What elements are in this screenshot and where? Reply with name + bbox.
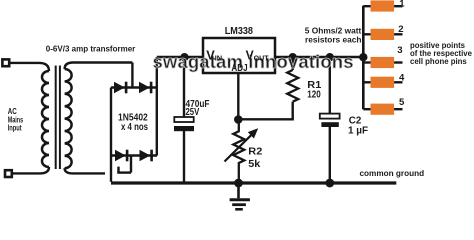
potentiometer R2 arrowhead (248, 128, 258, 138)
wire row5 right stub (394, 108, 402, 110)
capacitor C1 plates (174, 117, 193, 122)
capacitor C1 bottom lead (183, 131, 185, 183)
wire bridge right edge (156, 57, 158, 156)
wire row5 left stub (363, 108, 370, 110)
svg-text:cell phone pins: cell phone pins (410, 57, 467, 66)
resistor Ro5 (371, 104, 395, 115)
node C1 top (180, 53, 188, 61)
wire row1 right stub (394, 5, 402, 7)
wire primary top (11, 63, 50, 71)
resistor Ro3 (371, 57, 395, 68)
transformer T1 primary winding (42, 71, 49, 167)
transformer T1 core (56, 66, 60, 170)
regulator U1 LM338 (203, 38, 275, 73)
wire row4 left stub (363, 81, 370, 83)
wire secondary bottom (65, 168, 105, 173)
wire primary bottom (13, 167, 49, 173)
potentiometer R2 arrow line (225, 134, 253, 162)
svg-text:3: 3 (397, 45, 402, 56)
terminal square J1 (2, 59, 9, 66)
wire ADJ lead (237, 73, 239, 119)
wire bottom rail (common ground) (111, 181, 396, 184)
wire top rail bridge to VIN (157, 56, 203, 58)
node C2 bottom (325, 179, 334, 188)
wire row3 right stub (394, 61, 402, 63)
capacitor C1 top lead (183, 57, 185, 117)
diode D3 (115, 150, 126, 162)
resistor R1 zigzag (287, 70, 298, 102)
svg-text:1: 1 (399, 0, 405, 9)
wire jog hop stub (117, 167, 119, 173)
wire bottom diode row (111, 154, 157, 156)
svg-text:25V: 25V (186, 107, 200, 118)
svg-text:120: 120 (307, 89, 321, 100)
node ground R2 (234, 179, 243, 188)
wire secondary top to bridge (65, 63, 133, 70)
wire row2 left stub (363, 33, 370, 35)
wire bridge left edge (110, 88, 112, 182)
svg-text:resistors each: resistors each (305, 35, 362, 44)
node R1 top (289, 53, 297, 61)
svg-text:0-6V/3 amp transformer: 0-6V/3 amp transformer (46, 44, 136, 53)
wire R1 bottom lead (238, 102, 292, 120)
svg-text:ADJ: ADJ (231, 63, 247, 74)
wire drop to top diode row (131, 63, 133, 88)
wire jog horizontal (117, 171, 131, 173)
ground (230, 183, 250, 209)
resistor Ro1 (371, 0, 395, 11)
wire row3 left stub (363, 61, 370, 63)
wire right bus (362, 6, 365, 109)
diode D1 (114, 82, 125, 94)
wire row4 right stub (394, 81, 402, 83)
svg-text:LM338: LM338 (225, 26, 253, 37)
svg-text:5: 5 (399, 97, 405, 108)
capacitor C2 plates (320, 114, 340, 119)
wire top diode row (111, 86, 157, 88)
svg-text:4: 4 (399, 73, 405, 84)
svg-text:R2: R2 (248, 147, 263, 158)
wire VOUT rail (275, 56, 363, 58)
capacitor C2 top lead (329, 57, 331, 113)
wire row1 left stub (363, 5, 370, 7)
svg-text:5 Ohms/2 watt: 5 Ohms/2 watt (305, 27, 362, 36)
svg-text:2: 2 (398, 24, 403, 35)
node ADJ junction (234, 115, 243, 124)
potentiometer R2 zigzag (233, 119, 244, 183)
wire jog vertical to bottom diode midpoint (130, 156, 132, 173)
terminal square J2 (5, 170, 12, 177)
svg-text:5k: 5k (248, 159, 261, 170)
resistor Ro4 (371, 77, 395, 88)
diode D4 (140, 150, 151, 162)
svg-text:Input: Input (8, 124, 22, 133)
wire row2 right stub (394, 33, 402, 35)
svg-text:1 µF: 1 µF (348, 126, 368, 137)
node C2 top (326, 53, 334, 61)
svg-text:common ground: common ground (360, 169, 425, 178)
diode D2 (139, 82, 150, 94)
wire R1 top lead (292, 57, 294, 70)
svg-text:x 4 nos: x 4 nos (121, 122, 148, 133)
capacitor C2 bottom lead (329, 127, 331, 183)
resistor Ro2 (371, 29, 395, 40)
node bus top rail (359, 53, 367, 61)
transformer T1 secondary winding (65, 69, 72, 168)
